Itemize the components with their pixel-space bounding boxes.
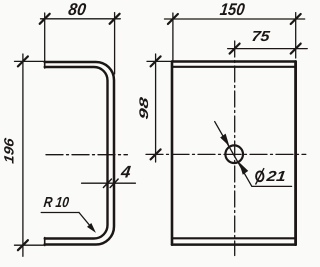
svg-text:R 10: R 10	[43, 195, 70, 211]
dim line 196	[22, 54, 24, 256]
extension line 80 right	[114, 13, 116, 74]
extension line 98 top	[147, 60, 171, 62]
extension line 196 top	[15, 60, 44, 62]
tick 4 right	[110, 179, 118, 187]
tick 4 left	[103, 179, 111, 187]
svg-text:150: 150	[219, 0, 246, 19]
leader R10 arrowhead	[88, 224, 96, 233]
text 80	[67, 0, 87, 19]
tick 150 right	[291, 14, 301, 24]
vertical centerline plate	[234, 41, 236, 256]
tick 196 bottom	[18, 240, 28, 250]
plate right edge	[294, 62, 297, 245]
dim line 98	[155, 54, 157, 162]
dia 21 arrowhead lower	[240, 163, 248, 174]
tick 98 top	[151, 56, 161, 66]
dia 21 shelf	[252, 185, 292, 187]
dim line 150	[165, 18, 305, 20]
svg-text:98: 98	[137, 96, 151, 120]
dim line 75	[228, 48, 308, 50]
tick 80 right	[110, 14, 120, 24]
plate bottom outer edge	[172, 243, 296, 246]
tick 75 right	[291, 44, 301, 54]
tick 150 left	[168, 14, 178, 24]
leader R10 diagonal	[79, 213, 94, 231]
svg-text:75: 75	[251, 29, 272, 45]
channel bottom end cap	[44, 238, 46, 246]
svg-text:196: 196	[1, 137, 16, 165]
dia symbol circle	[256, 171, 263, 181]
text 75	[251, 29, 272, 45]
plate top inner line	[172, 66, 296, 68]
plate bottom inner line	[172, 237, 296, 239]
plate left edge	[171, 62, 174, 245]
text R10	[43, 195, 70, 211]
text 150	[219, 0, 246, 19]
channel top end cap	[44, 61, 46, 68]
svg-text:21: 21	[265, 169, 287, 185]
hole circle	[225, 145, 243, 163]
leader R10 shelf	[41, 212, 79, 214]
extension line 150/75 right	[295, 13, 297, 58]
text 196	[1, 137, 16, 165]
extension line 80 left	[44, 13, 46, 61]
dia symbol slash	[256, 169, 264, 184]
channel profile outer	[45, 62, 114, 245]
tick 80 left	[40, 14, 50, 24]
extension line 150 left	[172, 13, 174, 61]
text 4	[119, 163, 132, 182]
centerline left view	[46, 154, 127, 156]
tick 75 left	[230, 44, 240, 54]
extension line 196 bottom	[15, 244, 44, 246]
tick 196 top	[18, 56, 28, 66]
tick 98 bottom	[151, 149, 161, 159]
plate top outer edge	[172, 60, 296, 63]
svg-text:80: 80	[67, 0, 87, 19]
channel profile inner	[45, 67, 108, 239]
dia 21 dimension diagonal	[215, 122, 252, 187]
text 98	[137, 96, 151, 120]
dim line 4	[82, 182, 136, 184]
text dia 21 value	[265, 169, 287, 185]
dia 21 arrowhead upper	[221, 134, 229, 145]
horizontal centerline plate	[146, 153, 306, 155]
dim line 80	[41, 18, 121, 20]
